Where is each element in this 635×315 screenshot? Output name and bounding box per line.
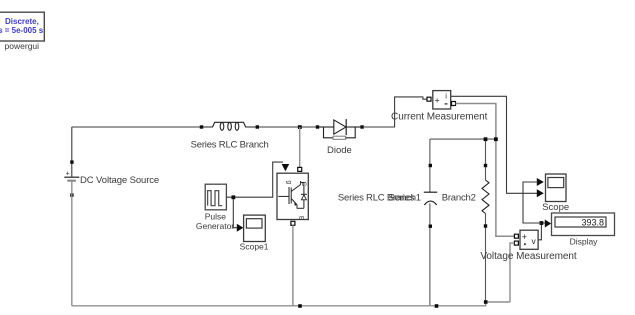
svg-text:393.8: 393.8 — [581, 217, 604, 227]
wire VM signal to Scope input1 — [523, 182, 541, 223]
wire CM - to load rail and VM+ — [456, 104, 515, 237]
svg-text:Current Measurement: Current Measurement — [391, 112, 488, 123]
wire resistor branch lower lead — [485, 214, 487, 303]
display Display — [552, 213, 615, 236]
arrow into Scope input2 — [537, 189, 544, 197]
wire CM i signal to Scope input 2 — [451, 96, 538, 193]
node diode right port — [360, 125, 363, 128]
wire VM v output to junction — [538, 223, 545, 240]
wire diode to CM riser — [364, 97, 427, 127]
wire IGBT emitter to bottom rail — [292, 225, 294, 305]
svg-text:Series RLC Branch: Series RLC Branch — [191, 140, 269, 151]
svg-text:Scope: Scope — [542, 202, 569, 213]
svg-text:Scope1: Scope1 — [240, 242, 269, 252]
node junction resistor top — [484, 137, 488, 141]
scope Scope — [546, 174, 567, 202]
DC Voltage Source battery symbol — [64, 170, 79, 181]
wire capacitor branch upper lead — [429, 139, 431, 192]
node inductor right port — [256, 125, 259, 128]
node IGBT bottom port — [291, 221, 295, 225]
arrow gate into IGBT — [282, 164, 290, 171]
wire capacitor branch lower lead — [429, 203, 431, 305]
wire DC- down to bottom rail — [71, 182, 73, 306]
wire top rail inductor to diode — [259, 126, 316, 128]
node CM - port — [452, 102, 456, 106]
svg-text:g: g — [285, 181, 292, 185]
arrow into Scope1 — [237, 224, 244, 232]
node junction CM- rail — [494, 137, 498, 141]
node diode left port — [316, 125, 319, 128]
node resistor top port — [484, 164, 487, 167]
svg-text:Series: Series — [389, 192, 415, 203]
node junction IGBT emitter on rail — [298, 304, 302, 308]
arrow into Display — [545, 220, 551, 228]
resistor R1 (Branch2) — [482, 180, 489, 214]
node junction capacitor on rail — [435, 304, 439, 308]
wire PG output to gate riser — [226, 162, 283, 197]
svg-text:+: + — [522, 232, 527, 242]
node CM + port — [427, 97, 431, 101]
voltage measurement VM1 — [520, 230, 538, 249]
svg-text:Diode: Diode — [327, 145, 352, 156]
node inductor left port — [200, 125, 203, 128]
wire IGBT collector drop — [299, 127, 301, 167]
diode D1 with snubber — [319, 119, 361, 139]
node junction PG output — [232, 195, 236, 199]
label Series Branch2 — [389, 192, 476, 203]
label Pulse Generator — [196, 211, 234, 231]
svg-text:+: + — [435, 95, 440, 105]
node DC- port — [70, 193, 73, 196]
svg-text:+: + — [66, 170, 70, 177]
svg-text:Display: Display — [570, 236, 599, 246]
wire top rail segment to inductor — [72, 126, 201, 128]
capacitor C1 (Series RLC Branch1) — [424, 192, 437, 205]
node junction resistor on rail — [484, 300, 488, 304]
pulse generator PG1 — [205, 184, 226, 210]
node capacitor bottom port — [429, 225, 432, 228]
arrow into Scope input1 — [537, 178, 544, 186]
wire VM - to bottom rail — [510, 243, 514, 302]
node DC+ port — [70, 160, 73, 163]
wire load top rail — [430, 138, 496, 140]
wire left rail top (DC+ up to top rail corner) — [71, 127, 73, 177]
inductor L1 (Series RLC Branch) — [203, 122, 256, 130]
svg-text:Branch2: Branch2 — [442, 192, 476, 203]
node VM + port — [514, 234, 518, 238]
scope Scope1 — [244, 215, 266, 241]
svg-text:powergui: powergui — [5, 41, 40, 51]
svg-text:Voltage Measurement: Voltage Measurement — [480, 251, 577, 262]
node capacitor top port — [429, 164, 432, 167]
IGBT block Q1 — [277, 173, 308, 221]
svg-text:E: E — [298, 216, 305, 221]
svg-text:DC Voltage Source: DC Voltage Source — [80, 175, 159, 186]
wire bottom rail — [72, 302, 510, 306]
node IGBT top port — [298, 167, 302, 171]
powergui U_powergui — [0, 12, 44, 51]
svg-text:Generator: Generator — [196, 221, 234, 231]
node junction at IGBT drop — [298, 125, 302, 129]
wire resistor branch upper lead — [485, 141, 487, 180]
node resistor bottom port — [484, 224, 487, 227]
node junction VM signal — [540, 221, 544, 225]
wire PG to Scope1 — [233, 199, 237, 228]
current measurement CM1 — [433, 91, 451, 109]
svg-text:Ts = 5e-005 s: Ts = 5e-005 s — [0, 26, 44, 35]
svg-text:Pulse: Pulse — [205, 211, 227, 221]
node VM - port — [514, 241, 518, 245]
svg-text:Discrete,: Discrete, — [5, 17, 39, 26]
